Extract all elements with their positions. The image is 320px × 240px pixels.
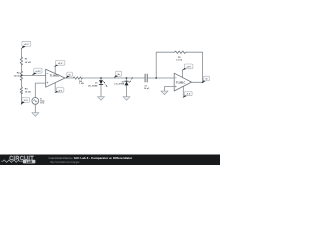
svg-text:10 kΩ: 10 kΩ bbox=[13, 75, 19, 77]
svg-text:1 kΩ: 1 kΩ bbox=[79, 83, 84, 85]
svg-text:R3: R3 bbox=[25, 89, 29, 91]
svg-text:-5 V: -5 V bbox=[24, 100, 29, 102]
svg-text:D1: D1 bbox=[95, 83, 97, 85]
svg-text:http://circuitlab.com/c4gqjav: http://circuitlab.com/c4gqjav bbox=[50, 161, 80, 164]
svg-text:LTL-307EE: LTL-307EE bbox=[115, 84, 125, 86]
svg-text:10 kΩ: 10 kΩ bbox=[25, 92, 31, 94]
svg-text:+2.5 V: +2.5 V bbox=[35, 71, 41, 73]
svg-text:+5 V: +5 V bbox=[24, 44, 29, 46]
svg-text:TL081C: TL081C bbox=[176, 80, 185, 84]
svg-text:-5 V: -5 V bbox=[58, 90, 63, 92]
svg-text:10 µF: 10 µF bbox=[144, 88, 150, 90]
svg-text:LAB: LAB bbox=[26, 160, 33, 164]
svg-text:5.1 kΩ: 5.1 kΩ bbox=[176, 60, 182, 62]
svg-text:10 kΩ: 10 kΩ bbox=[25, 62, 31, 64]
svg-text:-5 V: -5 V bbox=[186, 94, 191, 96]
svg-text:1 kHz: 1 kHz bbox=[40, 102, 45, 104]
svg-text:ColumbiaChilena / EtC Lab 3 -: ColumbiaChilena / EtC Lab 3 - Comparator… bbox=[49, 156, 134, 160]
svg-text:LTL-307EE: LTL-307EE bbox=[88, 85, 98, 87]
svg-text:TL081C: TL081C bbox=[50, 74, 59, 78]
svg-text:+5 V: +5 V bbox=[186, 67, 191, 69]
svg-text:R2: R2 bbox=[17, 73, 21, 75]
svg-text:R1: R1 bbox=[25, 59, 29, 61]
svg-text:+5 V: +5 V bbox=[58, 63, 63, 65]
